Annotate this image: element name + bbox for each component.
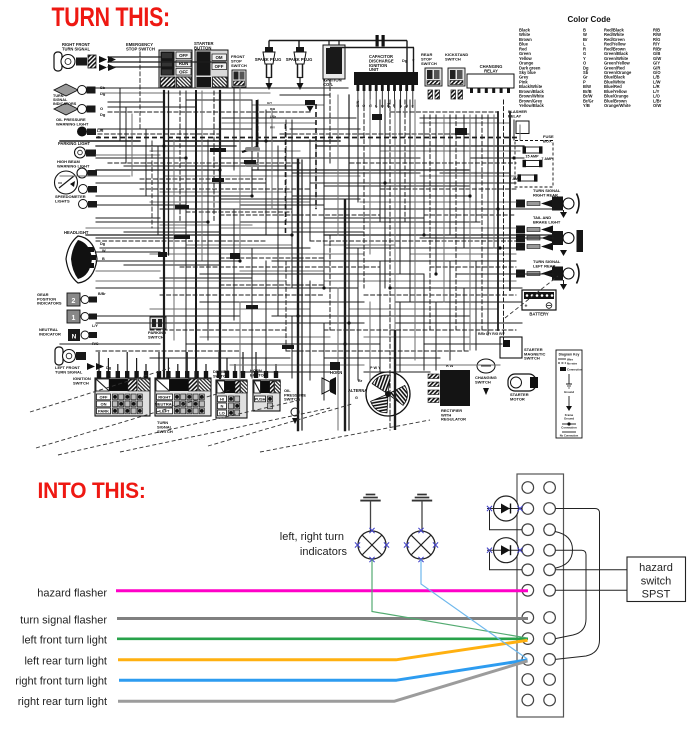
svg-text:right rear turn light: right rear turn light [18,696,107,708]
wire: diode D1 to pin row3 [490,510,523,530]
svg-text:SPARK PLUG: SPARK PLUG [286,57,313,62]
svg-text:HORN: HORN [330,370,342,375]
svg-text:Y/B: Y/B [583,103,590,108]
lamps: turn signal indicators [53,84,106,117]
svg-text:ON: ON [101,402,107,407]
svg-text:L: L [399,105,403,107]
svg-text:INDICATORS: INDICATORS [37,301,62,306]
junction dots and small connector bars [158,114,516,370]
svg-text:SWITCH: SWITCH [148,334,164,339]
svg-text:R/Br L/Y R/G R/Y: R/Br L/Y R/G R/Y [478,332,506,336]
thick black vertical bar x395 lower [394,330,396,430]
switch: horn button [250,368,280,411]
svg-text:HEADLIGHT: HEADLIGHT [64,230,89,235]
wire: right front turn light (blue) [119,660,528,680]
switch: kickstand switch [445,52,468,99]
svg-text:TURN SIGNAL: TURN SIGNAL [55,369,83,374]
svg-text:Dg: Dg [402,59,408,63]
diode D1 [487,496,523,521]
flasher relay [508,109,529,134]
ignition coil [323,40,345,87]
svg-text:R/B: R/B [270,107,276,111]
svg-text:RELAY: RELAY [484,69,498,74]
wire: arc pin row3 to pin row5 [555,532,573,569]
svg-text:hazard flasher: hazard flasher [37,588,107,600]
svg-text:PARK: PARK [98,409,109,414]
svg-text:BUTTON: BUTTON [250,372,267,377]
svg-text:Dg: Dg [100,242,106,246]
svg-text:Dg: Dg [100,112,106,117]
svg-text:SWITCH: SWITCH [421,61,437,66]
speedometer [55,171,78,194]
svg-text:left, right turn: left, right turn [280,531,344,543]
lamp: turn signal left rear [516,259,579,290]
svg-text:G: G [355,396,358,400]
svg-text:2: 2 [72,298,76,305]
svg-text:INDICATOR: INDICATOR [39,331,61,336]
fuse box [509,134,554,187]
spark plug 1 [255,47,282,90]
switch: starter magnetic switch [478,332,545,361]
horn [322,370,342,395]
capacitor discharge ignition unit [354,54,418,108]
svg-text:TURN SIGNAL: TURN SIGNAL [62,47,90,52]
svg-text:Br: Br [358,379,363,383]
svg-text:Ground: Ground [564,416,574,420]
wire: lamp2 to pin row9 (thin sky blue) [421,560,527,659]
svg-text:NEUTRAL: NEUTRAL [155,402,175,407]
svg-text:15 AMP: 15 AMP [525,155,539,159]
switch: oil pressure switch [284,388,306,424]
svg-text:N: N [221,404,224,409]
lamp: parking light [58,141,96,158]
svg-text:OM: OM [215,55,222,60]
color code table [519,15,662,108]
svg-text:REGULATOR: REGULATOR [441,417,466,422]
svg-text:LIGHTS: LIGHTS [55,198,70,203]
wire: pin row5 right to hazard switch [555,569,627,571]
svg-text:SWITCH: SWITCH [524,356,540,361]
svg-text:WARNING LIGHT: WARNING LIGHT [56,121,89,126]
svg-text:R/Y: R/Y [270,126,275,130]
switch: dimmer switch [213,369,247,418]
ground for lamp 1 [360,495,380,532]
svg-text:P W Y: P W Y [370,366,381,370]
svg-text:OFF: OFF [100,395,109,400]
svg-text:RIGHT: RIGHT [158,395,171,400]
svg-text:SPARK PLUG: SPARK PLUG [255,57,282,62]
wire: left front turn light (green) [117,637,528,640]
svg-text:L/Br: L/Br [270,115,277,119]
svg-text:Orange/White: Orange/White [604,103,631,108]
svg-text:Color Code: Color Code [567,15,611,24]
svg-text:BATTERY: BATTERY [529,312,549,317]
wire: hazard flasher (magenta) [116,589,528,592]
svg-text:N: N [72,334,77,341]
svg-text:SWITCH: SWITCH [231,63,247,68]
changing relay [467,64,514,93]
svg-text:COIL: COIL [323,82,333,87]
wire: pin row6 right to hazard switch [555,589,627,591]
alternator [348,366,410,416]
lamp: left front turn signal [55,347,112,374]
svg-text:indicators: indicators [300,546,348,558]
wire: lamp1 to pin row8 (thin green) [372,560,527,639]
svg-text:left rear turn light: left rear turn light [24,656,107,668]
svg-text:BRAKE LIGHT: BRAKE LIGHT [533,219,561,224]
svg-text:OFF: OFF [215,64,224,69]
svg-text:L/Y: L/Y [92,324,98,328]
svg-text:7 AMP: 7 AMP [509,177,521,181]
svg-text:Yellow/Black: Yellow/Black [519,103,545,108]
connector block [517,474,564,717]
rectifier with regulator [428,364,470,422]
svg-text:7 AMP: 7 AMP [541,157,553,161]
switch: front stop switch [231,54,247,87]
svg-text:LO: LO [219,411,225,416]
headlight [64,230,106,283]
wire mesh: vertical runs [120,52,520,430]
svg-text:WARNING LIGHT: WARNING LIGHT [57,163,90,168]
svg-text:INTO THIS:: INTO THIS: [38,477,146,503]
svg-text:+: + [525,304,528,310]
svg-text:SWITCH: SWITCH [445,56,461,61]
svg-text:HI: HI [220,397,224,402]
lamp: tail and brake light [516,215,583,256]
svg-text:TURN THIS:: TURN THIS: [52,3,170,33]
starter motor [508,374,538,401]
svg-text:right front turn light: right front turn light [15,676,107,688]
diagram key legend [556,350,583,438]
svg-text:INDICATORS: INDICATORS [53,102,77,106]
lamp 1: left turn indicator [355,528,389,562]
svg-text:STOP SWITCH: STOP SWITCH [126,47,155,52]
wire: right rear turn light (gray) [118,661,528,701]
svg-text:G/Y: G/Y [267,101,272,105]
svg-text:B: B [102,257,105,261]
lamps: speedometer lights [55,185,97,209]
switch: starter button [194,41,228,88]
svg-text:SWITCH: SWITCH [73,380,89,385]
svg-text:No wire: No wire [567,362,578,366]
lamp: neutral indicator [39,327,99,346]
svg-text:B/Br: B/Br [98,292,106,296]
svg-text:OFF: OFF [179,53,188,58]
lamp 2: right turn indicator [404,528,438,562]
heavy bus details upper-middle [96,100,520,235]
spark plug 2 [286,47,313,90]
lamp: right front turn signal [54,42,116,71]
lamp: turn signal right rear [516,188,579,218]
svg-text:OFF: OFF [179,69,188,74]
hazard switch SPST box [627,557,686,602]
svg-text:PARKING LIGHT: PARKING LIGHT [58,141,90,146]
wire mesh: horizontal runs [60,57,553,372]
wire: left rear turn light (orange) [118,640,528,660]
svg-text:MOTOR: MOTOR [510,396,525,401]
svg-text:O/W: O/W [653,103,661,108]
wire: turn signal flasher (gray) [117,617,528,620]
wire: pin row2 right to pin row9 right [555,509,599,660]
ground for lamp 2 [412,495,432,532]
svg-text:1: 1 [72,315,76,322]
svg-text:switch: switch [641,576,672,588]
svg-text:O: O [100,106,103,111]
svg-text:SPST: SPST [642,589,671,601]
diode D2 [487,538,523,563]
switch: ignition switch [73,376,150,416]
lamp: oil pressure warning light [56,117,104,140]
svg-text:SWITCH: SWITCH [475,379,491,384]
lamp: high beam warning light [57,159,97,178]
lamps: gear position indicators [37,292,106,328]
wire stubs into bottom switch grids [97,352,278,378]
svg-text:Connection: Connection [561,426,577,430]
switch: changing switch [475,359,497,395]
switch: emergency stop switch [126,42,192,88]
wires above CDI to coil and plugs [269,35,415,72]
svg-text:No Connection: No Connection [560,434,579,438]
switch: turn signal switch [155,378,211,434]
wire: pin row4 right to pin row8 right [555,550,586,638]
svg-text:UNIT: UNIT [369,67,379,72]
switch: parking switch [148,317,166,339]
svg-text:Connection: Connection [567,368,583,372]
wire mesh: dashed diagonals [30,276,558,455]
svg-text:Ground: Ground [564,390,574,394]
svg-text:PUSH: PUSH [254,397,265,402]
labels: wire names [15,588,107,709]
battery [522,290,556,317]
svg-text:left front turn light: left front turn light [22,635,107,647]
svg-text:hazard: hazard [639,562,673,574]
wire: diode D2 to pin row5 [490,552,523,570]
svg-text:turn signal flasher: turn signal flasher [20,615,107,627]
svg-text:Diagram Key: Diagram Key [559,353,580,357]
switch: rear stop switch [421,52,442,99]
